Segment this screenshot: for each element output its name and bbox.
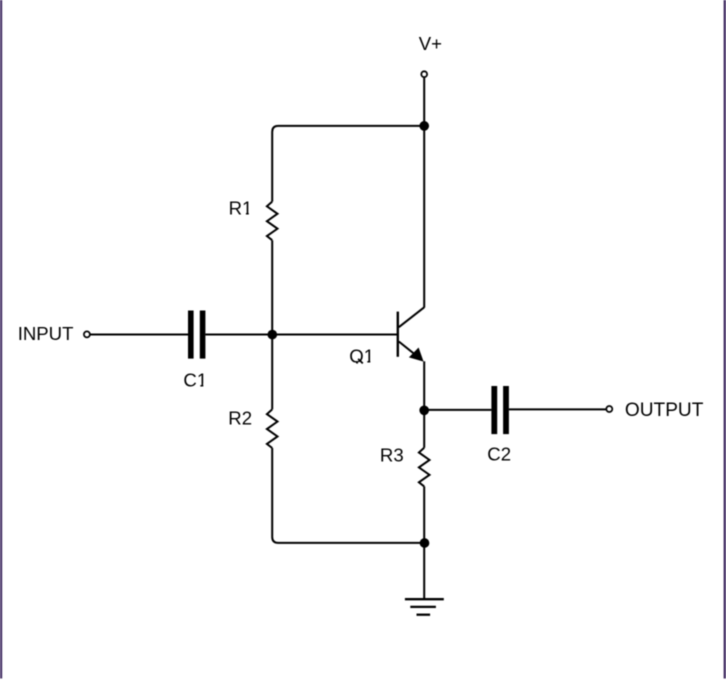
Q1 base bar xyxy=(397,312,399,357)
svg-text:R3: R3 xyxy=(380,444,404,465)
svg-text:R1: R1 xyxy=(229,198,253,219)
page right border xyxy=(724,0,726,679)
resistor R1 xyxy=(267,202,278,241)
wire R1 bottom to base node xyxy=(271,240,273,334)
svg-text:C1: C1 xyxy=(183,369,207,390)
wire V+ to collector rail xyxy=(423,78,425,126)
wire C1 to base node xyxy=(205,334,397,336)
junction base node xyxy=(267,330,277,340)
wire C2 to OUTPUT xyxy=(509,408,606,410)
junction collector/V+ node xyxy=(419,121,429,131)
ground xyxy=(405,599,444,615)
wire top rail with corner to R1 xyxy=(272,126,424,202)
capacitor C2 xyxy=(491,386,509,434)
Q1 tail trim xyxy=(352,364,364,367)
wire R2 to bottom rail with corner xyxy=(272,448,424,543)
wire base node to R2 xyxy=(271,335,273,410)
Q1 tail redraw xyxy=(358,359,363,364)
resistor R3 xyxy=(419,448,430,487)
Q1 emitter diagonal xyxy=(399,342,421,360)
wire R3 to ground node xyxy=(423,486,425,543)
wire collector vertical xyxy=(423,126,425,308)
svg-text:INPUT: INPUT xyxy=(18,323,74,344)
wire ground stem xyxy=(423,543,425,599)
node V+ terminal xyxy=(421,71,427,77)
resistor R2 xyxy=(267,409,278,448)
wire emitter vertical xyxy=(423,361,425,410)
wire emitter node to R3 xyxy=(423,410,425,447)
digit-1 foot masks xyxy=(197,213,374,387)
junction emitter node xyxy=(419,405,429,415)
Q1 collector diagonal xyxy=(399,307,424,327)
svg-text:OUTPUT: OUTPUT xyxy=(625,400,704,421)
svg-text:C2: C2 xyxy=(487,443,511,464)
svg-text:V+: V+ xyxy=(419,33,442,54)
wire INPUT to C1 xyxy=(90,334,188,336)
capacitor C1 xyxy=(188,311,205,359)
svg-text:R2: R2 xyxy=(228,407,252,428)
wire emitter node to C2 xyxy=(424,409,491,411)
page left border xyxy=(0,0,2,679)
junction ground node xyxy=(420,538,430,548)
node OUTPUT terminal xyxy=(606,406,612,412)
transistor Q1 xyxy=(398,307,424,361)
node INPUT terminal xyxy=(84,331,90,337)
Q1 emitter arrow xyxy=(409,348,424,362)
